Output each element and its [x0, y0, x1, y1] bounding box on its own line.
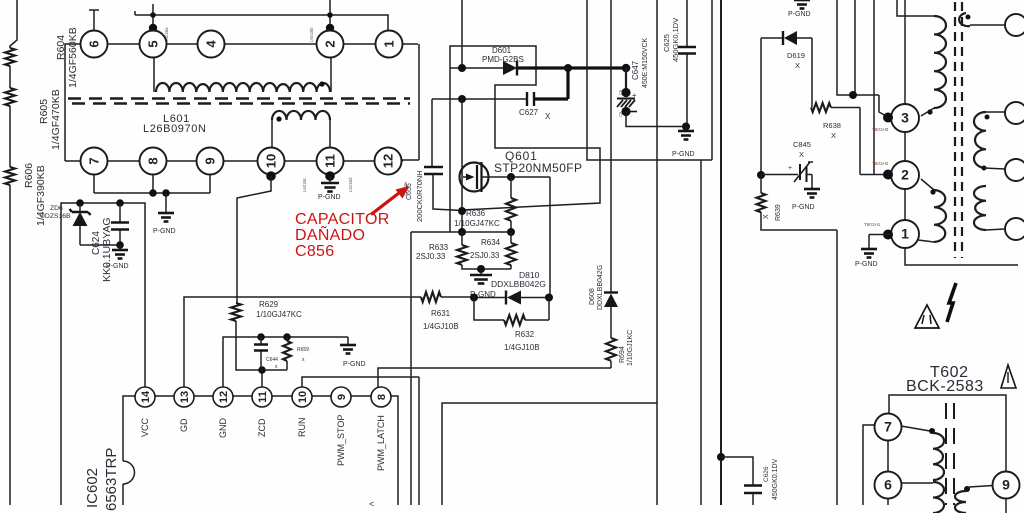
ground P-GND pin1 [869, 235, 891, 250]
capacitor C647 [622, 64, 631, 73]
svg-text:7: 7 [884, 419, 892, 435]
svg-text:C6: C6 [618, 111, 623, 117]
svg-text:P-GND: P-GND [343, 361, 366, 368]
resistor R638 [811, 103, 831, 112]
svg-text:X: X [799, 150, 804, 159]
IC602 pin 10 RUN [292, 387, 312, 407]
svg-text:1/4GF470KB: 1/4GF470KB [50, 89, 62, 150]
IC602 pin 12 GND [213, 387, 233, 407]
IC602 pin 14 VCC [135, 387, 155, 407]
wire RUN bus [302, 377, 419, 505]
svg-text:R659: R659 [297, 347, 309, 353]
L601 pin 6 [81, 31, 108, 58]
svg-text:12: 12 [381, 154, 396, 168]
svg-text:PMD-G2BS: PMD-G2BS [482, 55, 524, 64]
T602 pin 7 [875, 414, 902, 441]
svg-text:1/10GJ47KC: 1/10GJ47KC [256, 310, 302, 319]
svg-text:STP20NM50FP: STP20NM50FP [494, 161, 582, 175]
svg-text:GND: GND [218, 418, 228, 439]
wire box corner [442, 403, 657, 505]
resistor R604 [5, 48, 15, 66]
L601 primary winding [154, 57, 331, 92]
svg-text:UDZS16B: UDZS16B [40, 213, 71, 220]
svg-text:6563TRP: 6563TRP [103, 448, 120, 511]
wire pin12 to node [402, 44, 419, 160]
T601 secondary pin circle [1005, 218, 1024, 240]
symbol arrow bolt [947, 283, 956, 322]
L601 pin 8 [140, 148, 167, 175]
node pin10 [266, 171, 276, 181]
ground P-GND C845 [804, 188, 820, 191]
svg-text:CAPACITOR: CAPACITOR [295, 211, 390, 228]
node above pin5 [150, 12, 156, 18]
svg-text:VCC: VCC [140, 417, 150, 437]
svg-text:450GK0,1DV: 450GK0,1DV [671, 18, 680, 62]
wire vertical 587 and bus 160 [587, 0, 712, 505]
svg-text:6: 6 [884, 477, 892, 493]
svg-text:10: 10 [264, 154, 279, 168]
wire GD bus to R631 [184, 297, 421, 387]
svg-text:R636: R636 [466, 209, 486, 218]
resistor R694 [606, 338, 616, 361]
T601 core [954, 2, 956, 258]
svg-text:R605: R605 [38, 99, 50, 124]
wire [9, 66, 11, 88]
L601 pin 7 [81, 148, 108, 175]
svg-text:12: 12 [218, 391, 230, 403]
svg-text:11: 11 [323, 154, 338, 168]
IC602 pin 13 GD [174, 387, 194, 407]
svg-text:DDXLBB042G: DDXLBB042G [597, 265, 604, 310]
svg-text:450GK0.1DV: 450GK0.1DV [772, 458, 779, 500]
svg-text:L601Bd: L601Bd [348, 177, 353, 192]
svg-text:1/4GJ10B: 1/4GJ10B [504, 343, 540, 352]
diode D608 [604, 291, 618, 293]
wire pin10 run loop [237, 176, 271, 303]
diode D619 [761, 38, 812, 108]
resistor R659 [262, 337, 287, 370]
svg-text:KK0.1UBYAG: KK0.1UBYAG [101, 217, 113, 282]
T601 pin 3 [891, 104, 919, 132]
L601 pin 4 [198, 31, 225, 58]
svg-text:9: 9 [336, 394, 348, 400]
svg-text:PWM_LATCH: PWM_LATCH [376, 415, 386, 471]
svg-text:8: 8 [376, 394, 388, 400]
capacitor C625 [686, 0, 688, 127]
annotation arrow [371, 193, 399, 215]
svg-text:1/10GJ1KC: 1/10GJ1KC [627, 330, 634, 366]
ground P-GND pin11 [329, 176, 331, 183]
wire [610, 0, 612, 292]
svg-text:R629: R629 [259, 300, 279, 309]
svg-text:1/4GJ10B: 1/4GJ10B [423, 322, 459, 331]
capacitor C845 [761, 175, 812, 190]
T602 winding left [901, 426, 930, 431]
wire pins 7-9 ground bus [94, 175, 210, 194]
transistor Q601 MOSFET [461, 99, 463, 232]
svg-text:1: 1 [382, 40, 397, 47]
T601 secondary winding W2 [986, 111, 1005, 113]
svg-text:13: 13 [179, 391, 191, 403]
svg-text:L26B0970N: L26B0970N [143, 123, 207, 135]
svg-text:L601Bb: L601Bb [309, 27, 314, 42]
svg-text:1/4GF560KB: 1/4GF560KB [67, 27, 79, 88]
T601 secondary winding W3 [974, 186, 986, 230]
L601 core [68, 97, 410, 100]
resistor R634 [510, 232, 512, 269]
svg-text:8: 8 [146, 157, 161, 164]
T601 secondary pin circle [1005, 14, 1024, 36]
diode D601 [450, 67, 503, 69]
T601 secondary pin circle [1005, 159, 1024, 181]
svg-text:<: < [369, 499, 374, 509]
wire PWM_LATCH bus [378, 368, 611, 387]
svg-text:R638: R638 [823, 121, 841, 130]
wire [9, 106, 11, 167]
svg-text:RUN: RUN [297, 418, 307, 438]
svg-text:C626: C626 [763, 466, 770, 482]
svg-text:2: 2 [323, 40, 338, 47]
svg-text:R639: R639 [775, 204, 782, 221]
svg-text:C647: C647 [631, 60, 640, 80]
wire mid vertical [410, 232, 412, 505]
svg-text:2: 2 [901, 167, 909, 183]
ground P-GND top [794, 0, 810, 1]
IC602 pin 11 ZCD [252, 387, 272, 407]
svg-text:3: 3 [901, 110, 909, 126]
ground P-GND C625 [682, 123, 690, 131]
svg-text:2SJ0.33: 2SJ0.33 [416, 252, 446, 261]
T601 secondary winding W1 [970, 24, 1005, 26]
capacitor C644 [260, 337, 262, 370]
IC602 outline [123, 396, 398, 505]
diode D810 [441, 296, 549, 299]
resistor R629 [231, 303, 241, 321]
svg-text:2SJ0.33: 2SJ0.33 [470, 251, 500, 260]
L601 pin 11 [317, 148, 344, 175]
svg-text:PWM_STOP: PWM_STOP [336, 415, 346, 466]
wire vertical 657 [656, 0, 658, 505]
transformer T602 frame [863, 395, 1006, 513]
resistor R605 [5, 88, 15, 106]
node pin11 [325, 171, 335, 181]
L601 pin 9 [197, 148, 224, 175]
zener ZD6 [80, 203, 120, 245]
T601 winding B [934, 190, 946, 242]
L601 pin 12 [375, 148, 402, 175]
svg-text:9: 9 [1002, 477, 1010, 493]
svg-text:C627: C627 [519, 108, 539, 117]
T601 secondary pin circle [1005, 102, 1024, 124]
wire pin3 feeds [837, 0, 886, 175]
T602 pin 6 [875, 472, 902, 499]
node above pin2 [327, 12, 333, 18]
svg-text:C6: C6 [618, 89, 623, 95]
T601 pin 1 [891, 220, 919, 248]
wire vertical 721 [720, 0, 722, 505]
resistor R606 [5, 167, 15, 185]
wire [9, 185, 11, 505]
L601 pin 1 [376, 31, 403, 58]
svg-text:ZCD: ZCD [257, 418, 267, 437]
svg-text:P-GND: P-GND [106, 263, 129, 270]
L601 pin 2 [317, 31, 344, 58]
svg-text:T601H3: T601H3 [872, 127, 889, 132]
ground P-GND gnd bus [340, 344, 356, 347]
svg-text:T601H1: T601H1 [864, 222, 881, 227]
svg-text:4: 4 [204, 40, 219, 48]
svg-text:P-GND: P-GND [153, 228, 176, 235]
svg-text:ZD6: ZD6 [50, 205, 63, 212]
svg-text:C625: C625 [662, 34, 671, 52]
svg-text:GD: GD [179, 418, 189, 432]
capacitor C626 [717, 453, 725, 461]
wire D619 left leg [760, 38, 762, 175]
T602 winding right [969, 486, 993, 488]
wire VCC box [61, 203, 145, 505]
svg-text:5: 5 [146, 40, 161, 47]
svg-text:IC602: IC602 [84, 468, 101, 508]
svg-text:450E:M150VCK: 450E:M150VCK [642, 37, 649, 88]
svg-text:D608: D608 [589, 288, 596, 305]
L601 pin 5 [140, 31, 167, 58]
wire D601 box loop [450, 46, 600, 232]
svg-text:C655: C655 [406, 183, 413, 200]
L601 secondary winding [272, 111, 330, 120]
wire GND bus [223, 337, 348, 387]
transformer L601 frame [65, 44, 418, 161]
wire gate row [411, 231, 511, 233]
svg-text:R633: R633 [429, 243, 449, 252]
svg-text:R694: R694 [619, 346, 626, 363]
svg-text:6: 6 [87, 40, 102, 47]
svg-text:X: X [831, 131, 836, 140]
svg-text:L601Bc: L601Bc [302, 178, 307, 192]
IC602 pin 9 PWM_STOP [331, 387, 351, 407]
svg-text:X: X [545, 112, 551, 121]
svg-text:200CK0R70NH: 200CK0R70NH [415, 170, 424, 222]
ground P-GND sense [477, 265, 485, 273]
svg-text:X: X [763, 214, 770, 219]
symbol warning triangle small [1001, 365, 1016, 388]
svg-text:R634: R634 [481, 238, 501, 247]
svg-text:R632: R632 [515, 330, 535, 339]
resistor R632 [474, 298, 549, 321]
svg-text:R606: R606 [23, 163, 35, 188]
svg-text:1: 1 [901, 226, 909, 242]
svg-text:DDXLBB042G: DDXLBB042G [491, 279, 546, 289]
transformer T601 pins column [905, 0, 1018, 265]
svg-text:D619: D619 [787, 51, 805, 60]
L601 pin 10 [258, 148, 285, 175]
svg-text:C644: C644 [266, 357, 278, 363]
svg-text:T601H2: T601H2 [872, 161, 889, 166]
T601 pin 2 [891, 161, 919, 189]
ground P-GND under bus [165, 193, 167, 213]
svg-text:P-GND: P-GND [318, 194, 341, 201]
svg-text:+: + [788, 165, 792, 172]
svg-text:14: 14 [140, 390, 152, 403]
resistor R631 [421, 292, 441, 302]
svg-text:BCK-2583: BCK-2583 [906, 378, 984, 395]
svg-text:DAÑADO: DAÑADO [295, 224, 365, 244]
svg-text:9: 9 [203, 157, 218, 164]
svg-text:P-GND: P-GND [792, 204, 815, 211]
svg-text:D601: D601 [492, 46, 512, 55]
symbol warning triangle [915, 305, 939, 328]
svg-text:X: X [795, 61, 800, 70]
svg-text:10: 10 [297, 391, 309, 403]
svg-text:C845: C845 [793, 140, 811, 149]
capacitor C624 [119, 203, 121, 245]
svg-text:11: 11 [257, 391, 269, 403]
svg-text:C856: C856 [295, 243, 334, 260]
resistor R636 [510, 177, 512, 232]
svg-text:P-GND: P-GND [855, 261, 878, 268]
svg-text:P-GND: P-GND [788, 11, 811, 18]
wire top link over pins [89, 0, 388, 30]
IC602 pin 8 PWM_LATCH [371, 387, 391, 407]
svg-text:P-GND: P-GND [672, 151, 695, 158]
wire source line [482, 177, 551, 298]
capacitor C655 [432, 99, 462, 211]
wire R629 to ZCD [236, 321, 262, 387]
T602 core [945, 403, 947, 505]
ground P-GND C624 [119, 245, 121, 250]
T601 winding A [897, 0, 934, 16]
resistor R633 [462, 232, 511, 269]
capacitor C627 [432, 98, 526, 100]
resistor R639 [761, 175, 837, 505]
svg-text:1/10GJ47KC: 1/10GJ47KC [454, 219, 500, 228]
wire top feed [461, 0, 463, 68]
T602 pin 9 [993, 472, 1020, 499]
wire bold drain line [518, 66, 626, 69]
wire AC input left [10, 0, 17, 48]
svg-text:R631: R631 [431, 309, 451, 318]
svg-text:7: 7 [87, 157, 102, 164]
